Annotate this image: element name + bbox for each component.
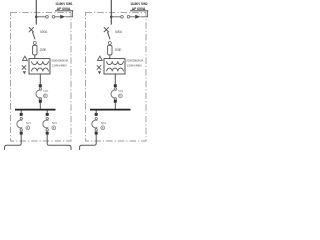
- wire: [65, 11, 72, 17]
- wire breaker to bus: [39, 103, 41, 109]
- main breaker contact circle bottom right: [114, 98, 116, 100]
- feeder 2 wire from bus: [46, 110, 48, 113]
- feeder 1 contact circle top: [20, 117, 22, 119]
- main breaker arc right: [111, 90, 116, 98]
- arrow to source label: [60, 15, 65, 19]
- feeder 1 breaker arc: [17, 120, 22, 128]
- disconnect contact circle 2 right: [127, 15, 130, 18]
- feeder 1 contact circle bottom: [20, 129, 22, 131]
- main breaker contact circle bottom: [39, 98, 41, 100]
- transformer T2 secondary winding: [107, 68, 124, 71]
- transformer secondary winding: [32, 68, 49, 71]
- wire tap to label right: [111, 16, 120, 18]
- feeder breaker stab top right: [95, 113, 98, 116]
- svg-text:600A: 600A: [40, 30, 48, 34]
- switch jaw circle: [33, 42, 36, 45]
- svg-text:N.O.: N.O.: [101, 121, 107, 125]
- feeder 1 exit wire: [5, 135, 22, 150]
- wire tap to label: [36, 16, 45, 18]
- feeder 2 device circle: [52, 126, 56, 130]
- feeder contact circle top right: [95, 117, 97, 119]
- svg-text:B: B: [53, 126, 55, 130]
- incoming feeder wire: [35, 0, 37, 25]
- ground arrow right: [98, 71, 101, 74]
- wire right: [130, 16, 135, 18]
- disconnect contact circle 1: [46, 15, 49, 18]
- incoming feeder wire right: [110, 0, 112, 25]
- feeder 2 contact circle top: [46, 117, 48, 119]
- switch blade right: [107, 32, 110, 40]
- switch jaw circle right: [108, 42, 111, 45]
- main breaker arc: [36, 90, 41, 98]
- 480V bus right: [90, 109, 131, 111]
- wye ground symbol secondary: [22, 65, 26, 69]
- svg-text:13.8KV-480V: 13.8KV-480V: [52, 64, 67, 68]
- 480V bus: [15, 109, 56, 111]
- svg-text:B: B: [102, 126, 104, 130]
- feeder contact circle bottom right: [95, 129, 97, 131]
- delta symbol primary right: [98, 56, 103, 60]
- svg-text:3000/3960KVA: 3000/3960KVA: [126, 59, 143, 63]
- svg-text:B: B: [119, 94, 121, 98]
- ground arrow: [23, 71, 26, 74]
- wire: [55, 16, 60, 18]
- feeder device circle right: [101, 126, 105, 130]
- main breaker 52M drawout stab top: [39, 84, 42, 87]
- feeder exit wire right: [80, 135, 97, 150]
- transformer T1 box: [29, 59, 50, 74]
- wire breaker to bus right: [114, 103, 116, 109]
- switch SW open contact X right: [104, 27, 109, 32]
- disconnect contact circle 2: [52, 15, 55, 18]
- enclosure border (dash-dot) right unit: [86, 13, 147, 141]
- feeder 2 exit wire: [47, 135, 71, 150]
- source label underline: [55, 10, 73, 12]
- wire transformer to main breaker right: [114, 74, 116, 84]
- feeder 2 contact circle bottom: [46, 129, 48, 131]
- svg-text:200E: 200E: [115, 48, 122, 52]
- svg-text:13.8KV-480V: 13.8KV-480V: [127, 64, 142, 68]
- main breaker drawout stab bottom right: [114, 100, 117, 103]
- main breaker contact circle top: [39, 88, 41, 90]
- feeder 1 device circle: [26, 126, 30, 130]
- wye ground symbol secondary right: [97, 65, 101, 69]
- svg-text:N.C.: N.C.: [43, 89, 49, 93]
- enclosure border (dash-dot) left unit: [11, 13, 72, 141]
- main breaker drawout stab bottom: [39, 100, 42, 103]
- switch SW open contact X: [29, 27, 34, 32]
- fuse F2 body: [108, 45, 112, 55]
- svg-text:200E: 200E: [40, 48, 47, 52]
- svg-text:N.O.: N.O.: [26, 121, 32, 125]
- feeder 2 breaker stab bottom: [46, 132, 49, 135]
- svg-text:N.C.: N.C.: [118, 89, 124, 93]
- feeder breaker arc right: [92, 120, 97, 128]
- svg-text:3000/3960KVA: 3000/3960KVA: [51, 59, 68, 63]
- main breaker 52M2 drawout stab top: [114, 84, 117, 87]
- arrow to source label right: [135, 15, 140, 19]
- svg-text:B: B: [44, 94, 46, 98]
- switch blade: [32, 32, 35, 40]
- transformer T2 box: [104, 59, 125, 74]
- feeder 1 breaker stab top: [20, 113, 23, 116]
- main breaker contact circle top right: [114, 88, 116, 90]
- svg-text:N.O.: N.O.: [52, 121, 58, 125]
- fuse F1 body: [33, 45, 37, 55]
- feeder 2 breaker stab top: [46, 113, 49, 116]
- disconnect contact circle 1 right: [121, 15, 124, 18]
- feeder 2 breaker arc: [43, 120, 48, 128]
- transformer primary winding: [32, 61, 49, 64]
- node junction dot right: [110, 15, 113, 18]
- feeder wire from bus right: [95, 110, 97, 113]
- delta symbol primary: [23, 56, 28, 60]
- wire transformer to main breaker: [39, 74, 41, 84]
- wire right: [109, 45, 111, 59]
- feeder 1 breaker stab bottom: [20, 132, 23, 135]
- wire right: [140, 11, 147, 17]
- wire: [34, 45, 36, 59]
- feeder breaker stab bottom right: [95, 132, 98, 135]
- svg-text:B: B: [27, 126, 29, 130]
- feeder 1 wire from bus: [20, 110, 22, 113]
- source label underline right: [130, 10, 148, 12]
- svg-text:600A: 600A: [115, 30, 123, 34]
- svg-text:AF 600A: AF 600A: [132, 6, 146, 11]
- svg-text:AF 600A: AF 600A: [57, 6, 71, 11]
- transformer T2 primary winding: [107, 61, 124, 64]
- main breaker device circle right: [119, 94, 123, 98]
- main breaker device circle: [44, 94, 48, 98]
- node junction dot: [35, 15, 38, 18]
